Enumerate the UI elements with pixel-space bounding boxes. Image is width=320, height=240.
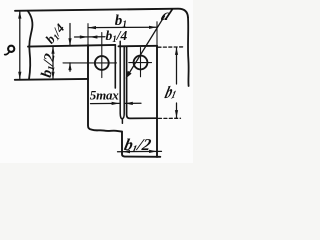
dimension b1/2 bottom line: [118, 150, 162, 152]
arrowhead b1/4 horizontal at x88: [80, 35, 88, 38]
right lug right edge: [156, 46, 158, 157]
hole right circle: [134, 56, 148, 70]
centerline vertical left hole: [101, 33, 103, 78]
dimension b1/4 vertical line upper: [69, 24, 71, 46]
dimension b1/4 horizontal line: [75, 36, 106, 38]
arrowhead b1/2 left bottom: [51, 72, 54, 80]
dimension b1/2 left line: [52, 46, 54, 79]
svg-text:b1/4: b1/4: [106, 28, 128, 44]
leader line for d: [128, 16, 164, 75]
bar bottom edge left segment: [28, 45, 115, 47]
arrowhead b top: [18, 11, 21, 19]
arrowhead 5max right: [125, 102, 133, 105]
bottom edge of left portion: [15, 78, 88, 81]
arrowhead b1 right bottom: [175, 110, 178, 118]
centerline horizontal right hole: [129, 62, 152, 64]
bent tab tip stub: [121, 119, 123, 124]
5max arrow line left: [91, 102, 120, 104]
left lug right edge: [114, 45, 116, 88]
arrowhead b1 right top: [175, 47, 178, 55]
arrowhead b1/4 horizontal at hole center: [90, 35, 98, 38]
dimension b1 right line upper: [176, 47, 178, 84]
lower body left edge and bottom edge: [122, 132, 160, 157]
right edge break line (wavy): [187, 18, 190, 87]
dashed extension at y118: [159, 117, 181, 119]
svg-text:5max: 5max: [90, 88, 120, 103]
bent tab inner wall: [123, 46, 125, 118]
arrowhead b1/2 bottom right: [149, 150, 157, 153]
arrowhead b1/2 left top: [51, 46, 54, 54]
arrowhead d leader: [126, 71, 132, 79]
arrowhead b bottom: [18, 72, 21, 80]
centerline horizontal left hole: [63, 62, 117, 64]
bent tab outer wall: [120, 41, 122, 119]
arrowhead b1 top left: [88, 26, 96, 29]
dashed extension at y47: [158, 46, 184, 48]
arrowhead b1/4 vertical up: [68, 63, 71, 70]
bar bottom edge right segment: [119, 45, 158, 48]
hole left circle: [95, 56, 109, 70]
arrowhead 5max left: [112, 102, 120, 105]
dimension b1 top line: [88, 26, 157, 28]
dimension b line: [19, 11, 21, 80]
top edge of upper bar with rounded right corner: [15, 9, 188, 18]
right lug left edge with corner into bottom edge: [127, 46, 157, 118]
arrowhead b1/2 bottom left: [122, 150, 130, 153]
label b: [5, 46, 15, 55]
5max arrow line right: [125, 102, 141, 104]
extension line x157: [156, 22, 158, 46]
left lug left edge with corner into wavy bottom: [88, 45, 122, 132]
extension line x88: [87, 24, 89, 45]
dimension b1/4 vertical line lower: [69, 63, 71, 71]
centerline vertical right hole: [140, 48, 142, 77]
arrowhead b1 top right: [149, 26, 157, 29]
arrowhead b1/4 vertical down: [68, 38, 71, 45]
left break line (wavy): [28, 11, 33, 79]
dimension b1 right line lower: [176, 103, 178, 118]
